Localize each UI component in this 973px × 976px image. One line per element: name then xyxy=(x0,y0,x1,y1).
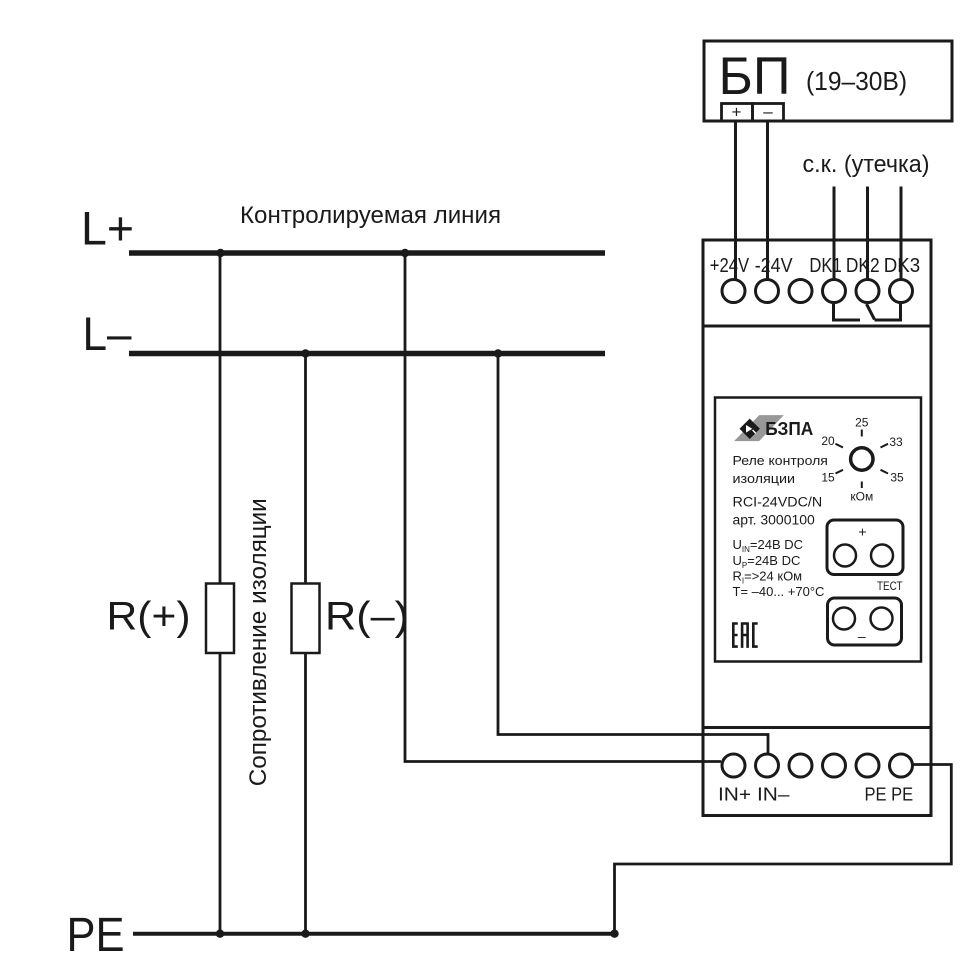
wire A lower xyxy=(219,653,222,934)
dial tick upper-right xyxy=(881,444,889,448)
svg-text:+: + xyxy=(732,103,742,122)
wire A upper xyxy=(219,253,222,584)
wire B lower xyxy=(304,653,307,934)
button circle upper right xyxy=(871,545,893,567)
svg-text:(19–30В): (19–30В) xyxy=(806,68,907,96)
inner label panel xyxy=(715,398,921,662)
wire DK3 xyxy=(900,187,903,280)
svg-text:-24V: -24V xyxy=(755,255,793,277)
dial tick lower-right xyxy=(881,470,889,474)
BEPA logo black diamond xyxy=(740,419,760,439)
test button box lower xyxy=(828,598,902,645)
svg-text:–: – xyxy=(763,102,773,121)
relay device outline xyxy=(703,240,931,816)
wire DK1 xyxy=(833,187,836,280)
bottom terminal PE circle 1 xyxy=(856,754,879,777)
svg-text:DK1: DK1 xyxy=(809,255,841,277)
wire BP plus to +24V xyxy=(734,121,737,279)
bottom terminal spare circle 1 xyxy=(789,754,812,777)
svg-text:L–: L– xyxy=(83,308,133,361)
bottom terminal IN- circle xyxy=(756,754,779,777)
svg-text:PE PE: PE PE xyxy=(865,784,914,805)
bottom terminal section divider xyxy=(703,726,931,729)
terminal DK1 circle xyxy=(823,280,846,303)
terminal spare circle top xyxy=(789,280,812,303)
bottom terminal spare circle 2 xyxy=(823,754,846,777)
wire B upper xyxy=(304,354,307,584)
BP plus terminal xyxy=(722,104,753,122)
resistor R(-) xyxy=(292,584,320,654)
dial tick bottom xyxy=(861,482,863,489)
junction L+ wire C xyxy=(401,249,409,257)
test button box upper xyxy=(827,520,903,575)
terminal +24V circle xyxy=(722,280,745,303)
button circle lower left xyxy=(833,608,855,630)
junction L- wire D xyxy=(494,349,502,357)
svg-text:кОм: кОм xyxy=(850,490,873,504)
bottom terminal IN+ circle xyxy=(722,754,745,777)
switch contact DK1 open end xyxy=(834,304,861,320)
terminal DK2 circle xyxy=(856,280,879,303)
switch link DK2-DK3 xyxy=(875,304,901,320)
dial tick top xyxy=(861,430,863,437)
svg-text:PE: PE xyxy=(67,909,125,962)
svg-text:БЗПА: БЗПА xyxy=(765,419,813,439)
svg-text:R(–): R(–) xyxy=(325,594,409,638)
svg-text:БП: БП xyxy=(719,47,791,106)
svg-text:изоляции: изоляции xyxy=(733,471,796,486)
svg-text:с.к. (утечка): с.к. (утечка) xyxy=(803,151,930,178)
junction L- wire B xyxy=(301,349,309,357)
BEPA logo cut line xyxy=(753,430,756,433)
bus line PE xyxy=(133,932,615,936)
terminal -24V circle xyxy=(756,280,779,303)
dial tick lower-left xyxy=(836,470,844,474)
svg-text:R(+): R(+) xyxy=(107,594,191,638)
bus line L+ xyxy=(129,250,605,256)
bottom terminal PE circle 2 xyxy=(890,754,913,777)
svg-text:Контролируемая линия: Контролируемая линия xyxy=(240,202,501,229)
svg-text:L+: L+ xyxy=(81,202,134,255)
power supply BP box xyxy=(704,41,952,121)
svg-text:33: 33 xyxy=(889,435,903,449)
bus line L- xyxy=(129,351,605,357)
svg-text:DK2: DK2 xyxy=(846,255,880,277)
junction PE wire A xyxy=(216,930,224,938)
svg-text:15: 15 xyxy=(821,471,835,485)
button circle upper left xyxy=(834,545,856,567)
dial tick upper-left xyxy=(836,444,844,448)
junction PE wire B xyxy=(301,930,309,938)
svg-text:Реле контроля: Реле контроля xyxy=(733,453,828,468)
svg-text:25: 25 xyxy=(855,416,869,430)
svg-text:+24V: +24V xyxy=(710,255,750,277)
svg-text:20: 20 xyxy=(821,434,835,448)
svg-text:ТЕСТ: ТЕСТ xyxy=(877,579,903,593)
svg-text:DK3: DK3 xyxy=(884,255,920,277)
BEPA logo white arrow xyxy=(746,425,752,433)
svg-text:–: – xyxy=(858,628,866,644)
EAC mark xyxy=(732,622,758,648)
svg-text:арт. 3000100: арт. 3000100 xyxy=(733,513,815,528)
junction PE return wire xyxy=(610,930,618,938)
svg-text:+: + xyxy=(858,524,866,540)
svg-text:Сопротивление изоляции: Сопротивление изоляции xyxy=(245,498,272,786)
wire C from L+ to IN+ xyxy=(405,253,721,762)
button circle lower right xyxy=(871,608,893,630)
svg-text:T= –40... +70°C: T= –40... +70°C xyxy=(733,584,825,599)
wire BP minus to -24V xyxy=(766,121,769,279)
dial knob xyxy=(851,448,873,470)
BP minus terminal xyxy=(753,104,784,122)
wire DK2 xyxy=(866,187,869,280)
switch blade DK2 xyxy=(867,304,875,320)
resistor R(+) xyxy=(206,584,234,654)
svg-text:35: 35 xyxy=(890,471,904,485)
svg-text:IN+ IN–: IN+ IN– xyxy=(718,784,790,805)
svg-text:RCI-24VDC/N: RCI-24VDC/N xyxy=(733,495,823,510)
junction L+ wire A xyxy=(216,249,224,257)
wire PE terminal exit xyxy=(615,765,952,934)
top terminal section divider xyxy=(703,325,931,328)
wire D from L- to IN- xyxy=(498,354,768,754)
terminal DK3 circle xyxy=(890,280,913,303)
BEPA logo gray band xyxy=(734,415,784,441)
